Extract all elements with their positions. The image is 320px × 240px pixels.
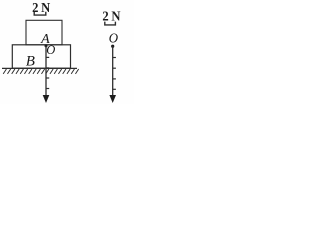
scale bracket under right 2 N label (105, 22, 116, 25)
ground hatching (3, 69, 78, 74)
svg-text:2 N: 2 N (32, 0, 50, 15)
node O (left figure) dot (45, 44, 48, 47)
node O (right figure) dot (111, 45, 114, 48)
scale bracket under left 2 N label (34, 12, 46, 15)
scale ticks on right vector (113, 58, 116, 90)
scale ticks on left vector (46, 57, 49, 88)
arrowhead of left force vector (43, 95, 50, 103)
svg-text:B: B (26, 54, 35, 70)
svg-text:2 N: 2 N (102, 8, 120, 24)
block B (12, 45, 70, 68)
force vector line from O (right) (112, 46, 114, 96)
svg-text:O: O (46, 43, 55, 57)
ground line (2, 67, 77, 69)
block A (26, 20, 62, 45)
arrowhead of right force vector (109, 95, 116, 103)
force vector line from O (left) (45, 46, 47, 96)
svg-text:O: O (109, 30, 119, 46)
